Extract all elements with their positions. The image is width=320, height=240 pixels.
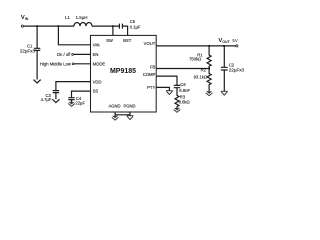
svg-text:22µFx3: 22µFx3 — [20, 49, 36, 54]
svg-text:R2: R2 — [201, 68, 207, 73]
svg-text:BST: BST — [123, 38, 132, 43]
svg-text:PTY: PTY — [147, 85, 155, 90]
svg-text:VIN: VIN — [93, 43, 100, 48]
svg-text:EN: EN — [93, 52, 99, 57]
svg-text:93.1kΩ: 93.1kΩ — [194, 74, 207, 79]
svg-text:6.8nF: 6.8nF — [179, 88, 190, 93]
svg-text:4.7µF: 4.7µF — [41, 97, 52, 102]
svg-text:COMP: COMP — [143, 72, 156, 77]
svg-text:VDD: VDD — [93, 79, 102, 84]
svg-text:C5: C5 — [130, 19, 136, 24]
svg-text:PGND: PGND — [123, 103, 135, 108]
svg-text:AGND: AGND — [108, 103, 120, 108]
svg-text:MODE: MODE — [93, 62, 106, 67]
svg-text:22µF: 22µF — [75, 100, 85, 105]
svg-text:VOUT: VOUT — [218, 38, 230, 44]
svg-text:22µFx3: 22µFx3 — [229, 67, 245, 72]
svg-text:VOUT: VOUT — [144, 41, 156, 46]
svg-text:VIN: VIN — [21, 15, 29, 21]
svg-text:C1: C1 — [27, 43, 33, 48]
svg-text:1.5µH: 1.5µH — [76, 15, 88, 20]
svg-text:High Middle Low: High Middle Low — [40, 61, 72, 66]
svg-text:FB: FB — [150, 64, 156, 69]
svg-text:750kΩ: 750kΩ — [189, 57, 201, 62]
svg-text:On / off: On / off — [57, 52, 71, 57]
svg-text:MP9185: MP9185 — [110, 68, 136, 75]
svg-text:8.6kΩ: 8.6kΩ — [179, 100, 190, 105]
svg-text:SW: SW — [106, 38, 113, 43]
svg-text:L1: L1 — [65, 15, 70, 20]
svg-text:C6: C6 — [180, 82, 186, 87]
svg-text:SS: SS — [93, 89, 99, 94]
svg-text:5V: 5V — [232, 38, 237, 43]
svg-text:0.1µF: 0.1µF — [130, 25, 141, 30]
